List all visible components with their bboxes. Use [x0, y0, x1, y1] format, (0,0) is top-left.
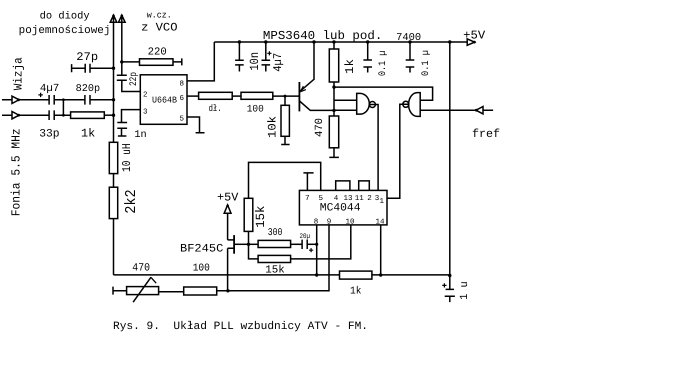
wire: vertical A down to bottom row corner: [113, 219, 115, 275]
wire: bottom row y=275 from A corner to 1k: [114, 274, 340, 276]
node B terminal arrow (w.cz. z VCO): [119, 15, 126, 23]
svg-text:U664B: U664B: [152, 96, 178, 106]
node: gate junction: [247, 243, 250, 246]
svg-text:2k2: 2k2: [123, 189, 140, 214]
capacitor 0.1u #1: [363, 42, 372, 73]
wire: node87 down through gate inputs: [333, 87, 335, 110]
wire: pin8 down: [316, 225, 318, 275]
node: junction B-220: [120, 60, 123, 63]
svg-text:MC4044: MC4044: [320, 203, 361, 215]
wire: 1k bottom to node: [333, 82, 335, 87]
svg-text:2: 2: [143, 91, 148, 100]
svg-text:MPS3640 lub pod.: MPS3640 lub pod.: [263, 29, 382, 43]
resistor 15k (upper vertical): [244, 198, 253, 231]
svg-text:820p: 820p: [76, 84, 101, 95]
resistor 100: [241, 92, 273, 99]
Q2 source lead down: [228, 248, 235, 291]
wire: pin5 up/left/down to 15k: [249, 162, 321, 198]
wire: pin9 down and left: [228, 225, 329, 291]
svg-text:10 uH: 10 uH: [120, 143, 134, 172]
node: rail junction 4u7: [264, 40, 267, 43]
svg-text:4µ7: 4µ7: [40, 83, 59, 95]
wire: row1 mid: [54, 99, 85, 101]
node: 1k bottom junction: [332, 85, 335, 88]
pin7 tee: [303, 173, 313, 191]
resistor 1k (bottom): [340, 271, 372, 279]
wire: fref line: [420, 109, 493, 111]
svg-text:33p: 33p: [39, 129, 60, 141]
wire: 10k top lead: [284, 96, 286, 105]
svg-text:300: 300: [268, 227, 283, 239]
ground 10k: [281, 136, 289, 144]
resistor 2k2 box: [109, 187, 117, 218]
wire: pin14 down: [380, 225, 382, 275]
bottom row2: open tick left: [113, 287, 127, 295]
wire: pin3 lead to 1n: [122, 110, 141, 123]
plus of 1u: [442, 283, 446, 287]
svg-text:0.1 µ: 0.1 µ: [378, 51, 389, 76]
wire: down to 470: [333, 110, 335, 116]
Q1 collector diagonal: [300, 101, 335, 110]
svg-text:z VCO: z VCO: [141, 22, 177, 35]
node: 10k tap: [284, 95, 287, 98]
svg-text:10n: 10n: [248, 52, 262, 71]
node: pin8 bottom junction: [315, 273, 318, 276]
Q2 drain lead from +5V: [228, 239, 235, 241]
wire: pin5 of U664B to ground bar: [187, 117, 205, 133]
svg-text:+5V: +5V: [463, 29, 486, 43]
capacitor 4u7 (rail): [262, 42, 271, 72]
node: collector junction: [332, 109, 335, 112]
Q1 emitter diagonal: [300, 42, 314, 91]
svg-text:9: 9: [327, 217, 332, 226]
resistor 10k: [281, 105, 289, 136]
svg-text:220: 220: [148, 47, 167, 59]
svg-text:14: 14: [375, 218, 385, 226]
wire: pin8 of U664B up to rail: [187, 42, 214, 81]
staple pins 4-13: [336, 181, 350, 191]
wire: vertical A lower segment between boxes: [113, 174, 115, 188]
svg-text:7400: 7400: [396, 32, 421, 44]
power rail +5V y=42: [214, 41, 467, 43]
wire: G1 output to pin3 MC4044: [369, 105, 378, 191]
svg-text:1: 1: [380, 198, 385, 206]
inductor 10uH box: [109, 142, 117, 173]
input arrow Fonia: [12, 112, 19, 119]
wire: connector row1-row2: [62, 100, 64, 115]
svg-text:10: 10: [345, 217, 355, 226]
svg-text:BF245C: BF245C: [180, 243, 223, 255]
capacitor 10n: [235, 42, 244, 72]
resistor 220: [140, 59, 174, 66]
svg-text:8: 8: [180, 79, 185, 88]
wire: 100 to Q1 base: [273, 95, 300, 97]
wire: +5V drop to bottom row: [449, 42, 451, 276]
svg-text:1 u: 1 u: [459, 281, 471, 300]
svg-text:20µ: 20µ: [300, 233, 311, 241]
svg-text:13: 13: [343, 194, 353, 203]
input arrow Wizja: [12, 96, 19, 103]
resistor 300: [258, 240, 291, 247]
wire: 300 to 20u: [291, 243, 303, 245]
wire: 100 to pin9 line: [217, 290, 329, 292]
node: Q2 source junction: [226, 289, 229, 292]
svg-text:1k: 1k: [350, 286, 361, 298]
svg-text:100: 100: [247, 105, 264, 116]
capacitor 27p with open tick left: [72, 64, 114, 73]
resistor 1k row2: [71, 112, 105, 119]
pot 470 diagonal arrow: [133, 277, 151, 302]
node: 27p to A junction: [112, 67, 115, 70]
svg-text:11: 11: [355, 195, 365, 203]
node: rail junction 0.1u #1: [366, 40, 369, 43]
wire: 220 left lead: [122, 61, 140, 63]
wire: gate node down to 15k lower row: [249, 244, 259, 259]
svg-text:470: 470: [132, 263, 150, 275]
NAND gate G1: [357, 93, 370, 114]
transistor Q1 MPS3640 base bar: [298, 82, 300, 111]
svg-text:+5V: +5V: [217, 191, 239, 205]
node: rail junction 1k: [332, 40, 335, 43]
capacitor 4u7 series plates: [49, 95, 54, 105]
input arrow fref: [476, 107, 483, 114]
svg-text:do diody: do diody: [40, 11, 90, 23]
capacitor 0.1u #2: [406, 42, 415, 73]
wire: NAND1 upper input: [334, 99, 357, 101]
node: row1-A junction: [112, 98, 115, 101]
svg-text:470: 470: [314, 118, 326, 137]
staple pins 11-2: [359, 181, 370, 191]
svg-text:8: 8: [314, 217, 319, 226]
svg-text:0.1 µ: 0.1 µ: [421, 50, 432, 76]
wire: 1k top lead: [333, 42, 335, 49]
plus of 20u: [309, 248, 313, 252]
wire: NAND1 lower input: [334, 109, 357, 111]
node: rail junction 0.1u #2: [408, 40, 411, 43]
wire: between dl and 100: [232, 95, 241, 97]
capacitor 820p plates: [85, 95, 90, 105]
svg-text:1k: 1k: [81, 127, 95, 141]
svg-text:pojemnościowej: pojemnościowej: [19, 25, 111, 37]
node: rail junction 10n: [238, 40, 241, 43]
plus of 4u7: [38, 93, 42, 97]
svg-text:1k: 1k: [343, 59, 357, 74]
resistor 1k (vertical top): [329, 49, 338, 82]
potentiometer 470 box: [127, 287, 159, 295]
wire: row2 mid: [54, 114, 70, 116]
wire: Wizja row1: [2, 99, 49, 101]
wire: 220 right lead with open tick: [173, 58, 182, 65]
svg-text:15k: 15k: [265, 265, 285, 277]
capacitor 20u plates: [302, 240, 307, 249]
wire: node87 to NAND2 input detour: [334, 87, 433, 100]
svg-text:dł.: dł.: [209, 103, 222, 114]
svg-text:4: 4: [334, 195, 339, 203]
svg-text:27p: 27p: [76, 51, 98, 64]
svg-text:100: 100: [193, 263, 210, 275]
svg-text:Fonia 5.5 MHz: Fonia 5.5 MHz: [9, 128, 23, 216]
Q2 gate lead right: [234, 243, 248, 245]
IC U664B box: [140, 75, 187, 125]
svg-text:5: 5: [318, 195, 323, 203]
node A terminal arrow (do diody): [110, 15, 117, 23]
node: rail junction emitter: [312, 40, 315, 43]
wire: bottom row y=275 right of 1k to +5V drop: [372, 274, 450, 276]
wire: pin10 down and left: [291, 225, 351, 259]
wire: pot to 100: [158, 291, 183, 293]
resistor dl.: [199, 92, 233, 99]
pin digits U664B: [143, 79, 185, 123]
capacitor 1u electrolytic: [445, 276, 455, 303]
resistor 15k (lower): [258, 255, 291, 262]
resistor 100 (bottom): [184, 287, 217, 295]
transistor Q2 BF245C channel bar: [233, 235, 235, 254]
NAND gate G2 (mirrored): [409, 93, 421, 117]
wire: row1 to A: [90, 99, 114, 101]
rotated labels: [9, 50, 471, 300]
wire: 20u to pin8 line: [307, 243, 317, 245]
plus of rail 4u7: [267, 51, 271, 55]
wire: vertical A (do diody line): [113, 22, 115, 142]
wire: vertical B (VCO line): [121, 22, 123, 75]
ground 470: [329, 148, 339, 158]
node: row2-A junction: [112, 114, 115, 117]
svg-text:Wizja: Wizja: [12, 57, 26, 90]
svg-text:w.cz.: w.cz.: [147, 11, 172, 21]
wire: pin6 lead: [187, 95, 199, 97]
+5V small arrow: [224, 205, 231, 240]
pin digits MC4044: [305, 194, 385, 227]
wire: gate node to 300: [249, 243, 259, 245]
wire: 15k to gate node: [248, 231, 250, 244]
svg-text:15k: 15k: [254, 206, 268, 228]
svg-text:fref: fref: [472, 127, 500, 141]
svg-text:7: 7: [305, 195, 310, 203]
svg-text:5: 5: [180, 115, 185, 123]
IC MC4044 box: [299, 190, 387, 225]
capacitor 22p plates: [117, 75, 127, 80]
wire: row2 to A: [104, 114, 113, 116]
svg-text:2: 2: [367, 194, 372, 203]
svg-text:6: 6: [180, 94, 185, 103]
wire: G2 output to pin1 MC4044: [387, 104, 409, 198]
node: pin14 bottom junction: [379, 273, 382, 276]
svg-text:22p: 22p: [129, 72, 140, 86]
resistor 470 (vertical): [329, 116, 338, 148]
wire: Fonia row2: [2, 114, 49, 116]
node: bottom row right junction: [448, 274, 451, 277]
Q1 emitter arrowhead: [300, 86, 306, 92]
svg-text:4µ7: 4µ7: [271, 53, 285, 72]
svg-text:3: 3: [143, 107, 148, 116]
capacitor 1n: [117, 123, 127, 137]
+5V arrow right: [467, 39, 474, 45]
svg-text:Rys. 9. Układ PLL wzbudnicy A: Rys. 9. Układ PLL wzbudnicy ATV - FM.: [113, 320, 368, 333]
node: rail junction +5V drop: [448, 40, 451, 43]
capacitor 33p plates: [49, 110, 54, 120]
svg-text:1n: 1n: [134, 129, 146, 141]
wire: B below 22p into pin2: [122, 80, 141, 91]
svg-text:10k: 10k: [267, 116, 280, 138]
node: 20u-pin8 junction: [315, 243, 318, 246]
